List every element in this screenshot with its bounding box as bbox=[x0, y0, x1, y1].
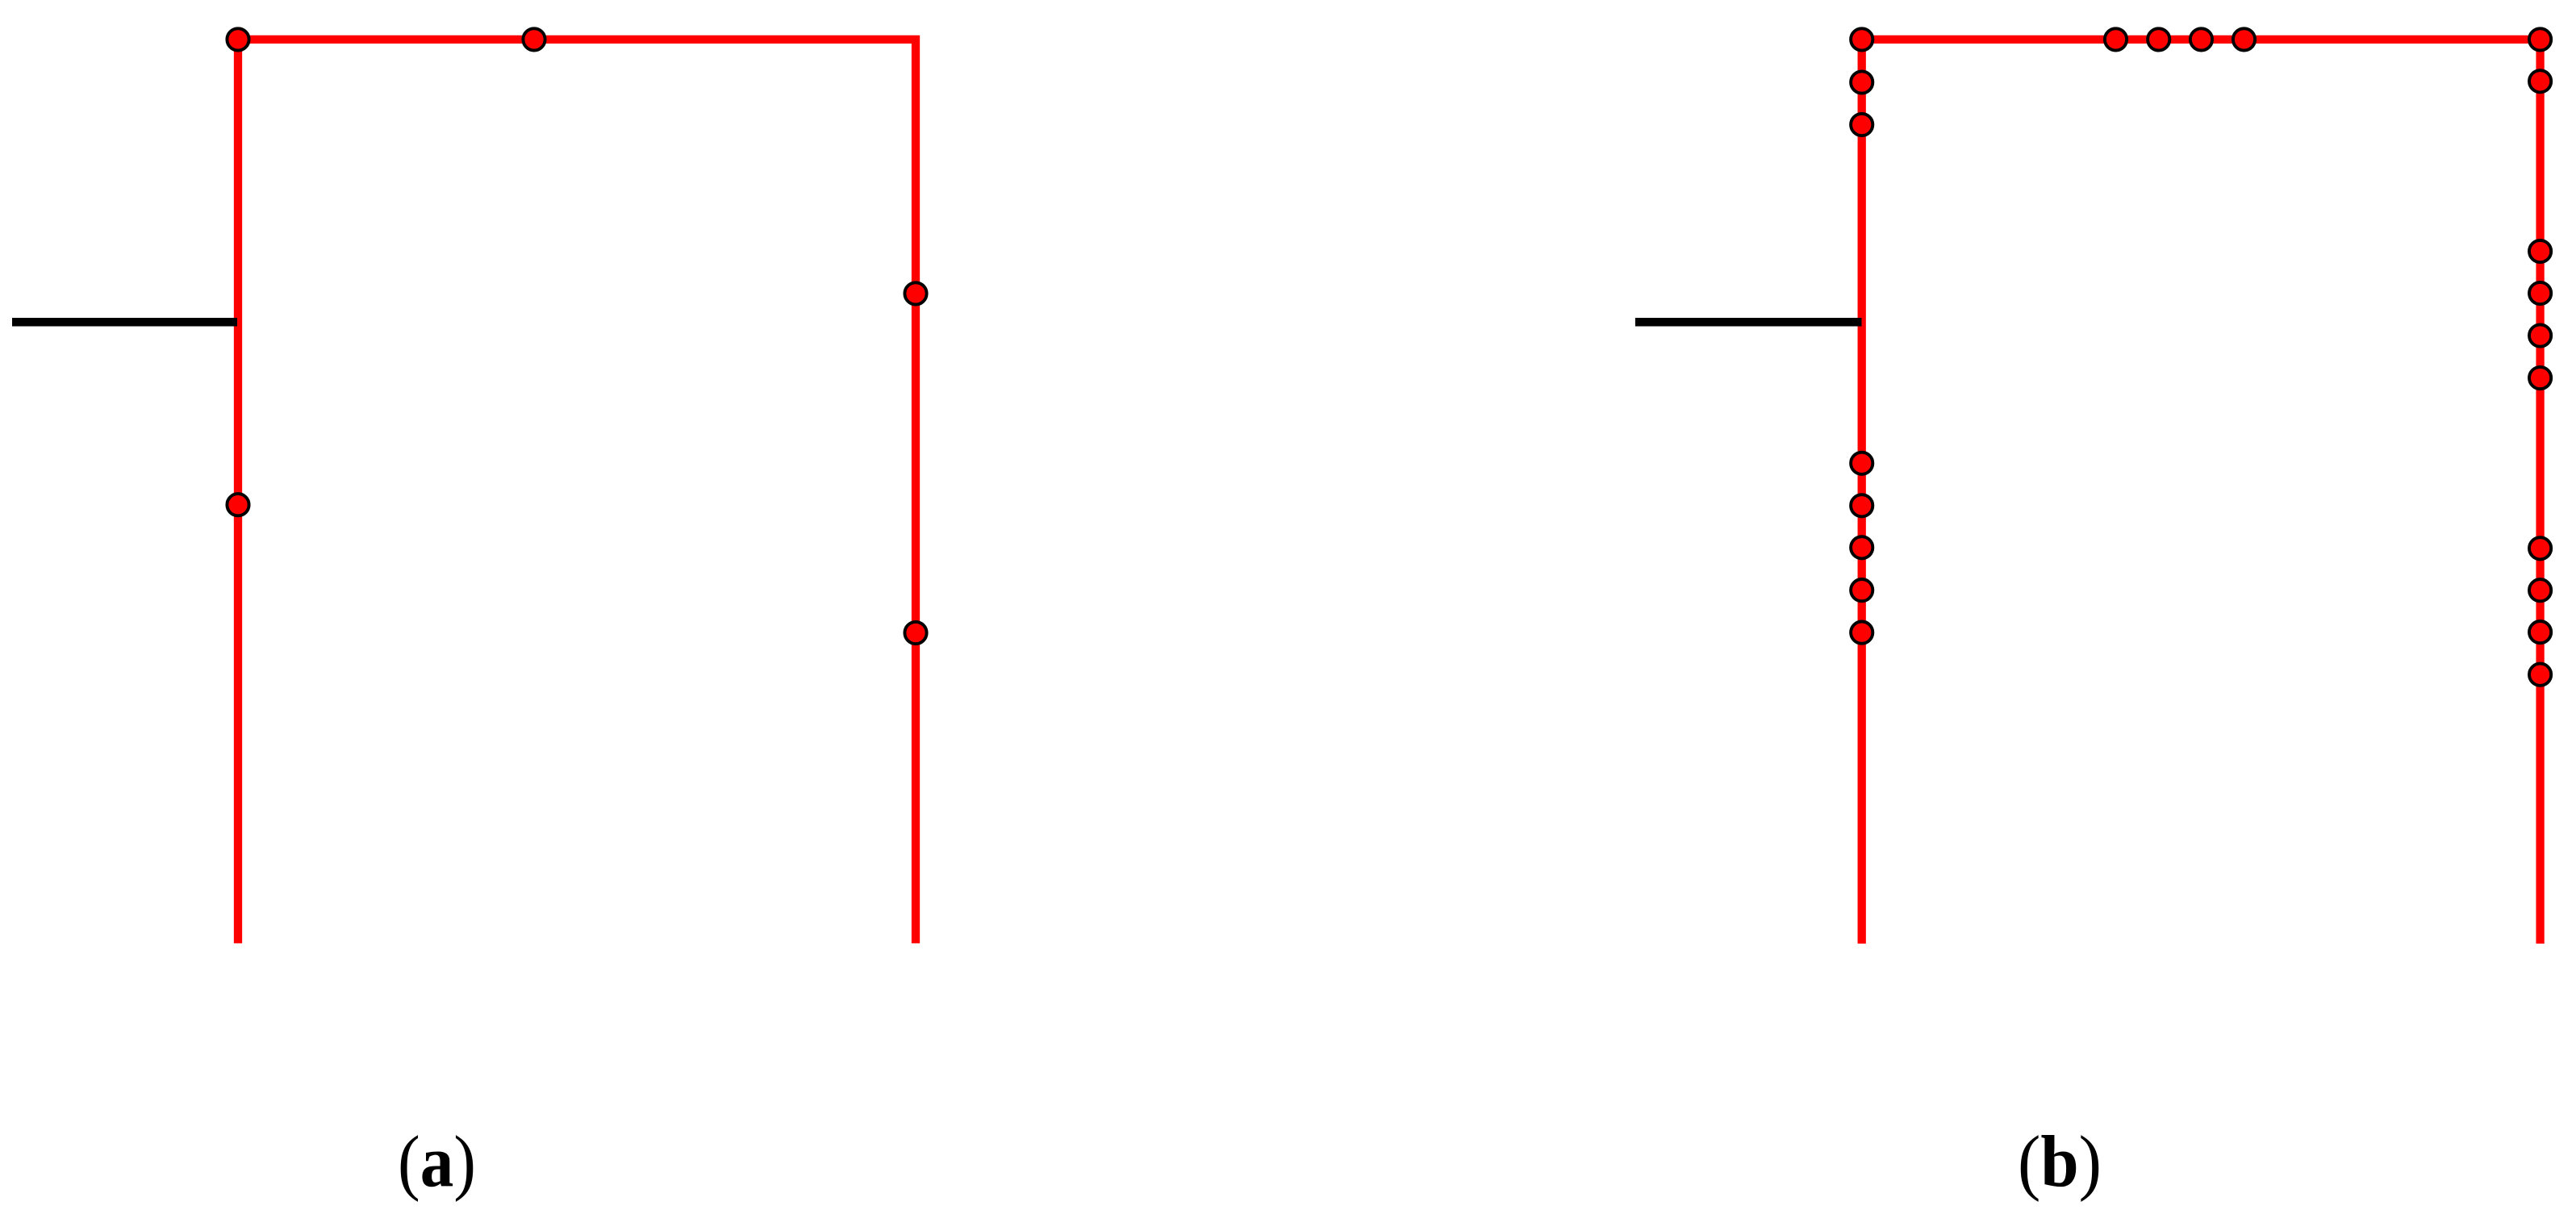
svg-text:(a): (a) bbox=[398, 1121, 476, 1203]
svg-text:(b): (b) bbox=[2018, 1121, 2102, 1203]
node a2 top edge bbox=[523, 28, 545, 50]
node b13 top-right corner bbox=[2529, 28, 2551, 50]
node b18 right edge cluster1 bbox=[2529, 367, 2551, 389]
node b16 right edge cluster1 bbox=[2529, 282, 2551, 304]
node b1 top-left corner bbox=[1851, 28, 1873, 50]
node b11 top edge cluster bbox=[2190, 28, 2212, 50]
node b20 right edge cluster2 bbox=[2529, 579, 2551, 601]
node b15 right edge cluster1 bbox=[2529, 240, 2551, 262]
node b22 right edge cluster2 bbox=[2529, 664, 2551, 686]
node b8 left edge cluster bbox=[1851, 622, 1873, 644]
node b14 right edge bbox=[2529, 70, 2551, 92]
node b12 top edge cluster bbox=[2233, 28, 2255, 50]
node b9 top edge cluster bbox=[2105, 28, 2127, 50]
node b19 right edge cluster2 bbox=[2529, 537, 2551, 559]
node a5 right edge lower bbox=[904, 622, 926, 644]
node b21 right edge cluster2 bbox=[2529, 621, 2551, 643]
crack line (black) b bbox=[1635, 318, 1862, 327]
node b3 left edge bbox=[1851, 114, 1873, 136]
node b5 left edge cluster bbox=[1851, 494, 1873, 516]
boundary path b (red U outline) bbox=[1862, 40, 2541, 944]
crack line (black) a bbox=[12, 318, 237, 327]
node b6 left edge cluster bbox=[1851, 536, 1873, 558]
node b4 left edge cluster bbox=[1851, 453, 1873, 474]
boundary path a (red U outline) bbox=[238, 40, 916, 944]
node a4 right edge upper bbox=[904, 282, 926, 304]
node b17 right edge cluster1 bbox=[2529, 324, 2551, 346]
node b10 top edge cluster bbox=[2148, 28, 2169, 50]
node b2 left edge bbox=[1851, 71, 1873, 93]
node a3 left edge bbox=[227, 494, 248, 515]
node a1 top-left corner bbox=[227, 28, 248, 50]
node b7 left edge cluster bbox=[1851, 579, 1873, 601]
